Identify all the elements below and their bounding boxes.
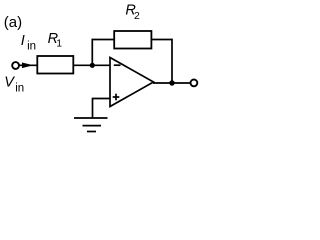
resistor R1 [37, 56, 73, 74]
svg-text:2: 2 [134, 10, 140, 22]
node output junction [169, 80, 174, 85]
svg-text:I: I [21, 33, 25, 49]
wire feedback down to output [171, 39, 173, 83]
node junction feedback tap [90, 63, 95, 68]
svg-text:in: in [15, 82, 24, 94]
op-amp minus pin mark [114, 64, 121, 66]
wire input terminal to R1 [19, 64, 37, 66]
wire non-inverting input to ground stub [93, 99, 111, 118]
svg-text:in: in [27, 41, 36, 53]
wire feedback to R2 [92, 39, 114, 41]
input terminal Vin [12, 62, 19, 69]
wire R1 to op-amp inverting input [73, 64, 110, 66]
svg-text:V: V [4, 75, 15, 91]
current arrow Iin [23, 63, 31, 67]
wire R2 to right corner [151, 39, 172, 41]
op-amp plus pin mark [113, 96, 120, 98]
wire feedback up from node [91, 39, 93, 66]
wire op-amp output [153, 82, 190, 84]
op-amp U1 [110, 58, 154, 107]
svg-text:(a): (a) [4, 14, 22, 31]
output terminal [191, 80, 198, 87]
ground [74, 117, 108, 119]
svg-text:1: 1 [56, 38, 62, 50]
resistor R2 [114, 31, 151, 49]
